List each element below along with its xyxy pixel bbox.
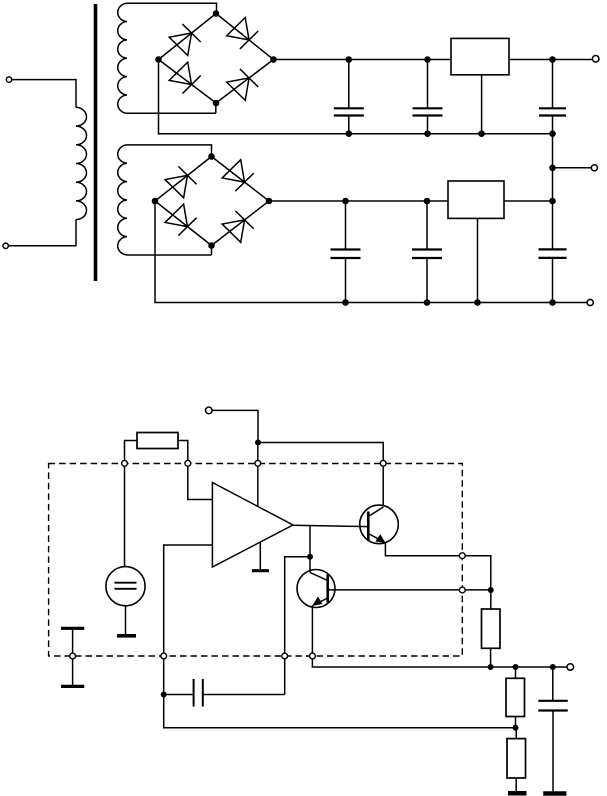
wire node to Q1 collector [258, 443, 383, 507]
node bridge1 left [155, 56, 162, 63]
node bridge2 top [208, 153, 215, 160]
case connection top bar [61, 627, 84, 630]
case connection wire [72, 628, 74, 686]
wire U1 ground pin [481, 75, 483, 134]
resistor R2 [482, 609, 501, 648]
bridge 1 wires [159, 14, 274, 104]
wire middle column [552, 134, 554, 303]
wire R4 leads [515, 728, 517, 792]
capacitor C7 [164, 679, 285, 707]
diode D3 [169, 62, 201, 94]
node [424, 299, 431, 306]
ground (R4) [508, 791, 527, 796]
wire U2 ground pin [477, 218, 479, 302]
capacitor C4 [331, 201, 361, 303]
node bridge1 right [270, 56, 277, 63]
wire Q2 base [328, 589, 491, 591]
node [342, 299, 349, 306]
node [549, 56, 556, 63]
wire rail2 positive [269, 200, 553, 202]
pin circle [459, 553, 465, 559]
node [346, 56, 353, 63]
wire S1 bottom to bridge [127, 103, 216, 113]
pin circle [310, 653, 316, 659]
diode D1 [169, 24, 201, 56]
capacitor C2 [413, 60, 443, 134]
wire bridge1 left node to lower rail [159, 60, 553, 134]
wire node left and down to capacitor [285, 557, 310, 695]
transformer secondary winding S2 [118, 145, 127, 255]
wire R1 left lead to current source [125, 441, 138, 567]
transformer primary winding [76, 107, 87, 219]
node capacitor left [161, 692, 167, 698]
resistor R3 [506, 678, 525, 716]
diode D5 [165, 166, 197, 198]
capacitor C5 [412, 201, 442, 303]
node [478, 130, 485, 137]
capacitor C1 [334, 60, 364, 134]
node [549, 130, 556, 137]
node [549, 299, 556, 306]
terminal output 2 [587, 299, 593, 305]
transformer secondary winding S1 [118, 3, 127, 113]
wire R2 bottom lead [490, 648, 492, 667]
ground (current source) [117, 634, 136, 638]
resistor R1 [137, 433, 178, 449]
node [424, 56, 431, 63]
terminal P1 [6, 77, 11, 82]
transformer core [94, 4, 98, 281]
wire node to op-amp V+ [257, 443, 259, 507]
wire inverting input / feedback [164, 545, 516, 728]
wire input to node [212, 410, 258, 442]
wire Q2 emitter to output rail [312, 605, 567, 667]
capacitor C8 [538, 667, 568, 791]
node feedback divider [513, 725, 519, 731]
dashed IC boundary box [49, 464, 463, 657]
pin circle [161, 653, 167, 659]
diode D4 [227, 69, 259, 101]
wire Q1 emitter [385, 543, 490, 610]
terminal output 1 [592, 56, 599, 63]
wire [8, 220, 76, 246]
node output branch [307, 554, 313, 560]
resistor R4 [507, 739, 526, 778]
wire R1 right lead to op-amp input [178, 441, 212, 500]
diode D2 [227, 18, 259, 50]
node [346, 130, 353, 137]
node bridge2 left [152, 198, 159, 205]
node [424, 198, 431, 205]
regulator U2 [448, 181, 504, 218]
node Q1 emitter / Q2 base [488, 587, 494, 593]
node bridge1 bottom [213, 100, 220, 107]
op-amp ground [252, 542, 269, 571]
current source CS1 [106, 567, 145, 606]
wire S2 bottom to bridge [127, 246, 212, 256]
wire S2 top to bridge [127, 145, 212, 157]
node bridge2 bottom [208, 242, 215, 249]
capacitor C6 [539, 249, 567, 258]
wire op-amp output to Q1 base [293, 525, 368, 526]
capacitor C3 [539, 60, 566, 134]
wire rail1 positive [274, 59, 593, 61]
pin circle [70, 653, 76, 659]
node input branch [255, 440, 261, 446]
wire R3 leads [515, 667, 517, 728]
wire bridge2 left node to bottom rail [155, 201, 587, 303]
output terminal [567, 664, 574, 671]
wire output branch down [309, 526, 311, 557]
node [424, 130, 431, 137]
diode D6 [222, 160, 254, 192]
case connection bottom bar [61, 685, 84, 688]
terminal common [591, 165, 597, 171]
node C8 top [550, 664, 556, 670]
pin circle [185, 460, 191, 466]
wire [12, 80, 76, 108]
transistor Q2 [297, 570, 335, 608]
node R2 output rail [488, 664, 494, 670]
wire Q2 collector lead [309, 557, 311, 573]
pin circle [282, 653, 288, 659]
node [549, 165, 556, 172]
diode D8 [222, 211, 254, 243]
diode D7 [165, 204, 197, 236]
bridge 2 wires [155, 157, 269, 246]
pin circle [255, 460, 261, 466]
regulator U1 [451, 38, 509, 74]
node bridge2 right [266, 198, 273, 205]
node bridge1 top [213, 10, 220, 17]
node [342, 198, 349, 205]
wire to common terminal [553, 167, 592, 169]
pin circle [459, 587, 465, 593]
node [474, 299, 481, 306]
node R3 top [513, 664, 519, 670]
node [549, 198, 556, 205]
input terminal [206, 407, 213, 414]
op-amp U3 [212, 483, 293, 568]
pin circle [380, 460, 386, 466]
transistor Q1 [360, 505, 399, 544]
wire S1 top to bridge [127, 3, 217, 13]
terminal P2 [3, 243, 8, 248]
ground (C8) [543, 791, 566, 796]
wire current source to ground [125, 606, 127, 634]
pin circle [122, 460, 128, 466]
